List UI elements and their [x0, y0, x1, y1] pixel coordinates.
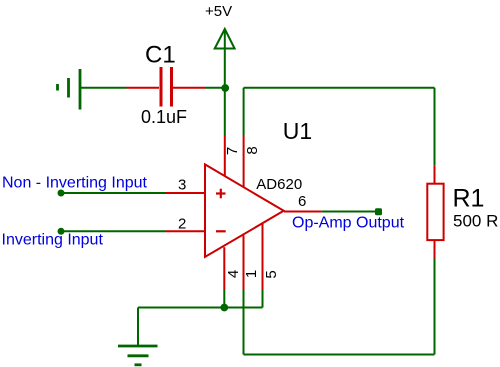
wire op-amp output (green): [321, 211, 378, 213]
wire right vertical down to R1: [434, 88, 436, 166]
endpoint dot inverting input: [58, 228, 65, 235]
resistor R1 (leads and body): [427, 165, 443, 258]
op-amp minus marking: [216, 230, 226, 232]
pin 8 stub (red): [243, 136, 245, 188]
svg-text:2: 2: [178, 215, 186, 232]
svg-text:0.1uF: 0.1uF: [141, 107, 187, 127]
junction dot at pin 4 / ground wire: [220, 304, 228, 312]
junction dot at +5V / C1 / pin7: [221, 84, 229, 92]
pin 2 stub (red): [165, 230, 205, 232]
svg-text:Inverting Input: Inverting Input: [2, 232, 104, 249]
wire bottom horizontal to pin 1: [244, 354, 435, 356]
power symbol +5V (arrow): [215, 29, 235, 49]
svg-text:1: 1: [243, 270, 260, 278]
pin 4 stub (red): [223, 247, 225, 290]
wire GND1 to C1 left lead: [80, 87, 127, 89]
wire R1 bottom down: [434, 259, 436, 355]
svg-text:5: 5: [263, 270, 280, 278]
svg-text:+5V: +5V: [205, 3, 232, 20]
svg-text:C1: C1: [145, 42, 176, 69]
wire pin 1 vertical (green part): [243, 290, 245, 355]
svg-text:6: 6: [298, 193, 306, 210]
svg-text:4: 4: [225, 270, 242, 278]
wire down to GND2: [137, 308, 139, 346]
capacitor C1 (plates and leads): [127, 67, 207, 107]
op-amp U1 triangle body: [205, 164, 284, 257]
svg-text:8: 8: [244, 146, 261, 154]
wire +5V down to pin 7 (green part): [224, 49, 226, 136]
pin 6 stub (red): [284, 211, 321, 213]
svg-text:Op-Amp Output: Op-Amp Output: [292, 214, 405, 231]
svg-text:R1: R1: [453, 184, 485, 212]
svg-text:500 R: 500 R: [453, 212, 498, 231]
wire non-inverting input (green): [61, 192, 165, 194]
endpoint dot non-inverting input: [58, 190, 65, 197]
pin 4 wire (green part): [223, 290, 225, 308]
ground symbol GND2 (bottom): [118, 346, 158, 365]
endpoint square op-amp output: [375, 208, 382, 215]
svg-text:7: 7: [224, 147, 241, 155]
svg-text:AD620: AD620: [256, 176, 302, 193]
pin 5 stub (red): [262, 224, 264, 290]
pin 7 stub (red): [224, 136, 226, 177]
pin 8 wire (green part): [243, 88, 245, 136]
svg-text:3: 3: [178, 177, 186, 194]
wire inverting input (green): [61, 230, 165, 232]
wire pins 4,5 to ground (horizontal): [138, 307, 263, 309]
wire pin 8 to R1 top (top horizontal): [244, 87, 435, 89]
svg-text:Non - Inverting Input: Non - Inverting Input: [2, 174, 148, 191]
wire C1 to +5V junction: [206, 87, 225, 89]
op-amp plus marking: [216, 189, 226, 199]
ground symbol GND1 (left, rotated pointing left): [58, 69, 81, 110]
pin 3 stub (red): [165, 192, 205, 194]
pin 1 stub (red): [243, 236, 245, 291]
pin 5 wire (green part): [262, 290, 264, 308]
svg-text:U1: U1: [283, 118, 312, 144]
